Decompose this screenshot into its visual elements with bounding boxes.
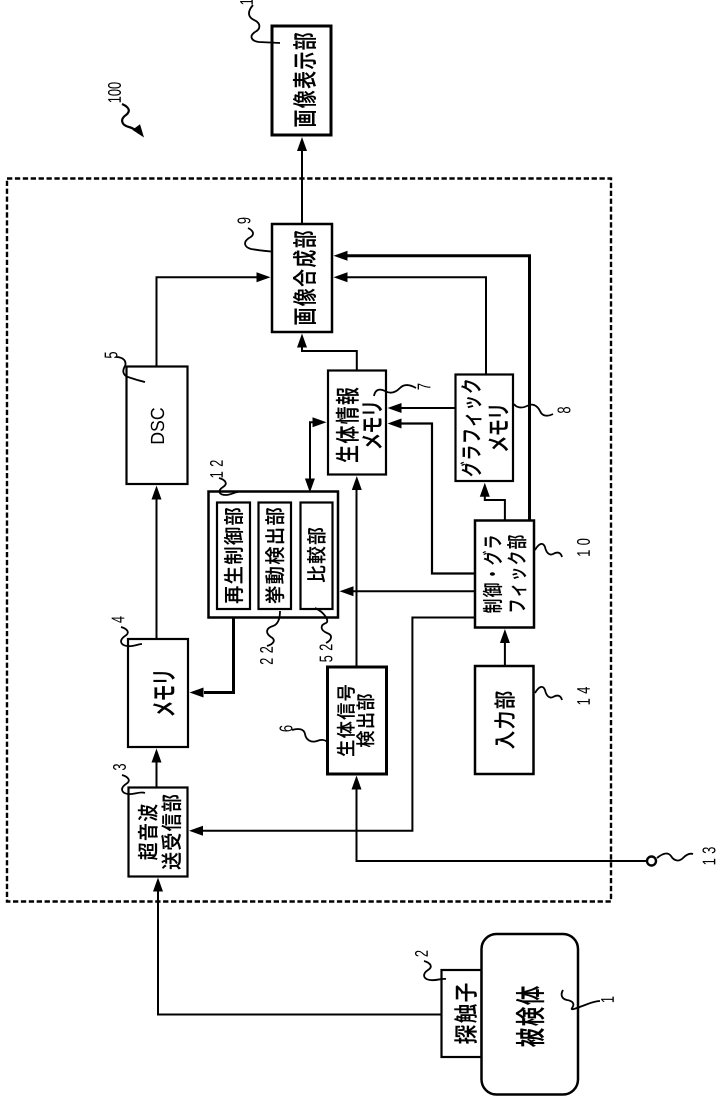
wire: biosignal detection 6 to bio info memory 7	[356, 489, 358, 667]
DSC text	[151, 408, 164, 443]
leader 9	[245, 228, 271, 252]
arrowhead into bio info memory right lower	[388, 419, 402, 429]
arrowhead into memory right	[190, 688, 204, 698]
box 52: comparison part (hikaku-bu)	[301, 503, 333, 610]
ref label 52	[319, 644, 332, 661]
ref label 100	[108, 82, 121, 102]
leader 6	[292, 729, 328, 743]
leader arrow from 100	[122, 104, 139, 133]
box 7: biological info memory (seitai joho memori)	[328, 371, 386, 475]
wire: image synthesis 9 to image display 11	[301, 140, 303, 224]
leader 5	[116, 357, 145, 382]
arrowhead of 100 leader	[132, 124, 144, 137]
arrowhead into image synthesis left	[257, 272, 271, 282]
arrowhead into block 12 top	[305, 479, 315, 493]
box 11: image display (gazo hyoji-bu)	[272, 26, 331, 135]
terminal circle 13	[647, 857, 656, 866]
box 12: outer detector container	[209, 492, 339, 618]
leader 13	[657, 854, 693, 861]
leader 52	[315, 608, 331, 643]
arrowhead into image display bottom	[297, 137, 307, 151]
wire: control/graphic 10 to bio info memory 7	[401, 424, 475, 574]
arrowhead into biosignal detection bottom	[352, 776, 362, 790]
arrowhead into image synthesis bottom	[297, 334, 307, 348]
ref label 12	[210, 460, 223, 477]
ref label 11 (clipped at top)	[240, 0, 253, 4]
box 4: memory (memori)	[128, 639, 188, 747]
wire: input 14 to control/graphic 10	[504, 642, 506, 666]
arrowhead into bio info memory right upper	[388, 403, 402, 413]
leader 8	[514, 404, 553, 416]
wire: bio info memory 7 to image synthesis 9	[302, 347, 357, 371]
ref label 14	[577, 687, 590, 704]
ref label 10	[577, 539, 590, 556]
ref label 3	[113, 764, 126, 770]
arrowhead into image synthesis right lower	[334, 272, 348, 282]
leader 7	[374, 385, 416, 396]
wire: graphic memory 8 to bio info memory 7	[401, 407, 456, 409]
wire: graphic memory 8 to image synthesis 9	[347, 277, 486, 374]
arrowhead into control/graphic bottom	[500, 629, 510, 643]
ref label 8	[557, 407, 570, 413]
arrowhead into image synthesis right upper	[334, 251, 348, 261]
box 8: graphic memory (gurafikku memori)	[456, 375, 514, 482]
box 10: control/graphic part (seigyo gurafikku-bu)	[475, 521, 534, 628]
wire: control/graphic 10 to ultrasonic 3	[203, 618, 475, 831]
ref label 7	[418, 384, 431, 390]
wire: memory 4 to DSC 5	[156, 499, 158, 639]
arrowhead into memory bottom	[152, 749, 162, 763]
leader 4	[121, 627, 142, 646]
dashed system boundary 100	[7, 179, 611, 902]
arrowhead into ultrasonic bottom	[153, 878, 163, 892]
box 1: subject (hikentai)	[482, 934, 579, 1095]
arrowhead into block 12 right	[340, 586, 354, 596]
box 6: biosignal detection (seitai shingo kenshutsu-bu)	[328, 667, 387, 774]
wire: control/graphic 10 to block 12	[353, 590, 475, 592]
wire: control/graphic 10 to graphic memory 8	[485, 495, 505, 521]
ref label 2	[415, 951, 428, 957]
leader 11	[249, 5, 280, 43]
ref label 5	[105, 352, 118, 358]
ref label 13	[702, 847, 715, 864]
box 14: input part (nyuryoku-bu)	[475, 666, 534, 774]
leader 1	[562, 990, 600, 1009]
leader 12	[219, 478, 238, 495]
arrowhead into graphic memory bottom	[480, 483, 490, 497]
leader 22	[267, 611, 280, 646]
leader 10	[535, 544, 562, 557]
box 12a: playback control (saisei seigyo-bu)	[217, 503, 250, 610]
wire: probe 2 to ultrasonic 3	[158, 891, 442, 1015]
box 22: behavior detection (kyodo kenshutsu-bu)	[259, 503, 292, 610]
arrowhead into bio info memory bottom	[352, 476, 362, 490]
wire: ultrasonic 3 to memory 4	[156, 761, 158, 788]
leader 14	[535, 687, 562, 700]
leader 3	[122, 775, 145, 794]
ref label 1	[601, 997, 614, 1003]
box 9: image synthesis (gazo gosei-bu)	[272, 224, 332, 332]
ref label 22	[260, 647, 273, 664]
arrowhead into DSC bottom	[152, 486, 162, 500]
box 5: DSC	[127, 367, 188, 485]
ref label 9	[237, 218, 250, 224]
ref label 6	[279, 726, 292, 732]
arrowhead into bio info memory left	[313, 417, 327, 427]
arrowhead into ultrasonic right	[189, 826, 203, 836]
wire: DSC 5 to image synthesis 9	[157, 277, 259, 366]
ref label 4	[112, 616, 125, 622]
wire: control/graphic 10 to image synthesis 9	[347, 256, 530, 521]
wire: external terminal 13 to biosignal detection 6	[357, 789, 647, 861]
box 3: ultrasonic transmit/receive (choonpa soujushin-bu)	[129, 788, 188, 877]
leader 2	[424, 961, 446, 980]
wire: playback control to memory 4 (thick)	[204, 609, 234, 693]
box 2: probe (tanshokushi)	[442, 970, 482, 1057]
wire: bio info memory 7 <-> detector block 12 bidirectional	[310, 422, 313, 479]
